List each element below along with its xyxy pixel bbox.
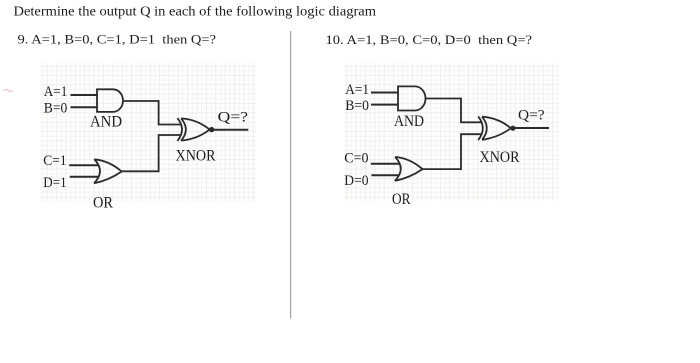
pink stray mark [4,90,14,92]
svg-text:B=0: B=0 [345,98,369,114]
wire OR output to XNOR bottom input (right) [423,134,482,169]
wire C input (right) [371,163,400,165]
svg-text:Determine the output Q in each: Determine the output Q in each of the fo… [14,4,377,19]
OR gate U5 [395,157,423,181]
wire B input (right) [371,104,399,106]
wire B input [71,106,98,108]
wire D input (right) [371,174,399,176]
grid background left [40,63,256,202]
svg-text:D=1: D=1 [43,175,66,191]
OR gate U2 [94,159,122,183]
wire A input (right) [371,92,399,94]
svg-text:XNOR: XNOR [480,149,520,166]
grid background right [344,63,559,201]
svg-text:C=0: C=0 [344,151,368,167]
svg-text:Q=?: Q=? [518,108,545,124]
XNOR gate U6 [478,116,511,140]
svg-text:D=0: D=0 [344,173,368,189]
AND gate U4 [398,86,426,110]
svg-text:A=1: A=1 [345,82,369,98]
svg-text:C=1: C=1 [43,153,66,169]
svg-text:AND: AND [90,114,122,131]
wire D input [70,176,99,178]
XNOR gate U3 [177,118,209,141]
wire C input [69,164,98,166]
svg-text:A=1: A=1 [44,84,68,100]
wire AND output to XNOR top input (right) [425,99,481,123]
svg-text:OR: OR [93,195,113,212]
wire A input [71,94,98,96]
svg-text:B=0: B=0 [44,101,68,117]
wire OR output to XNOR bottom input [122,135,181,171]
wire Q output [214,129,248,131]
svg-text:XNOR: XNOR [176,148,216,165]
svg-text:OR: OR [392,191,411,208]
AND gate U1 [97,89,123,112]
XNOR output bubble dot (right) [510,126,515,131]
svg-text:AND: AND [394,113,424,130]
svg-text:Q=?: Q=? [218,110,248,126]
XNOR output bubble dot [209,127,214,132]
wire AND output to XNOR top input [123,101,181,125]
wire Q output (right) [515,127,549,129]
svg-text:10. A=1, B=0, C=0, D=0 then Q: 10. A=1, B=0, C=0, D=0 then Q=? [326,33,533,47]
svg-text:9. A=1, B=0, C=1, D=1 then Q=: 9. A=1, B=0, C=1, D=1 then Q=? [18,32,217,46]
divider line [290,31,292,319]
